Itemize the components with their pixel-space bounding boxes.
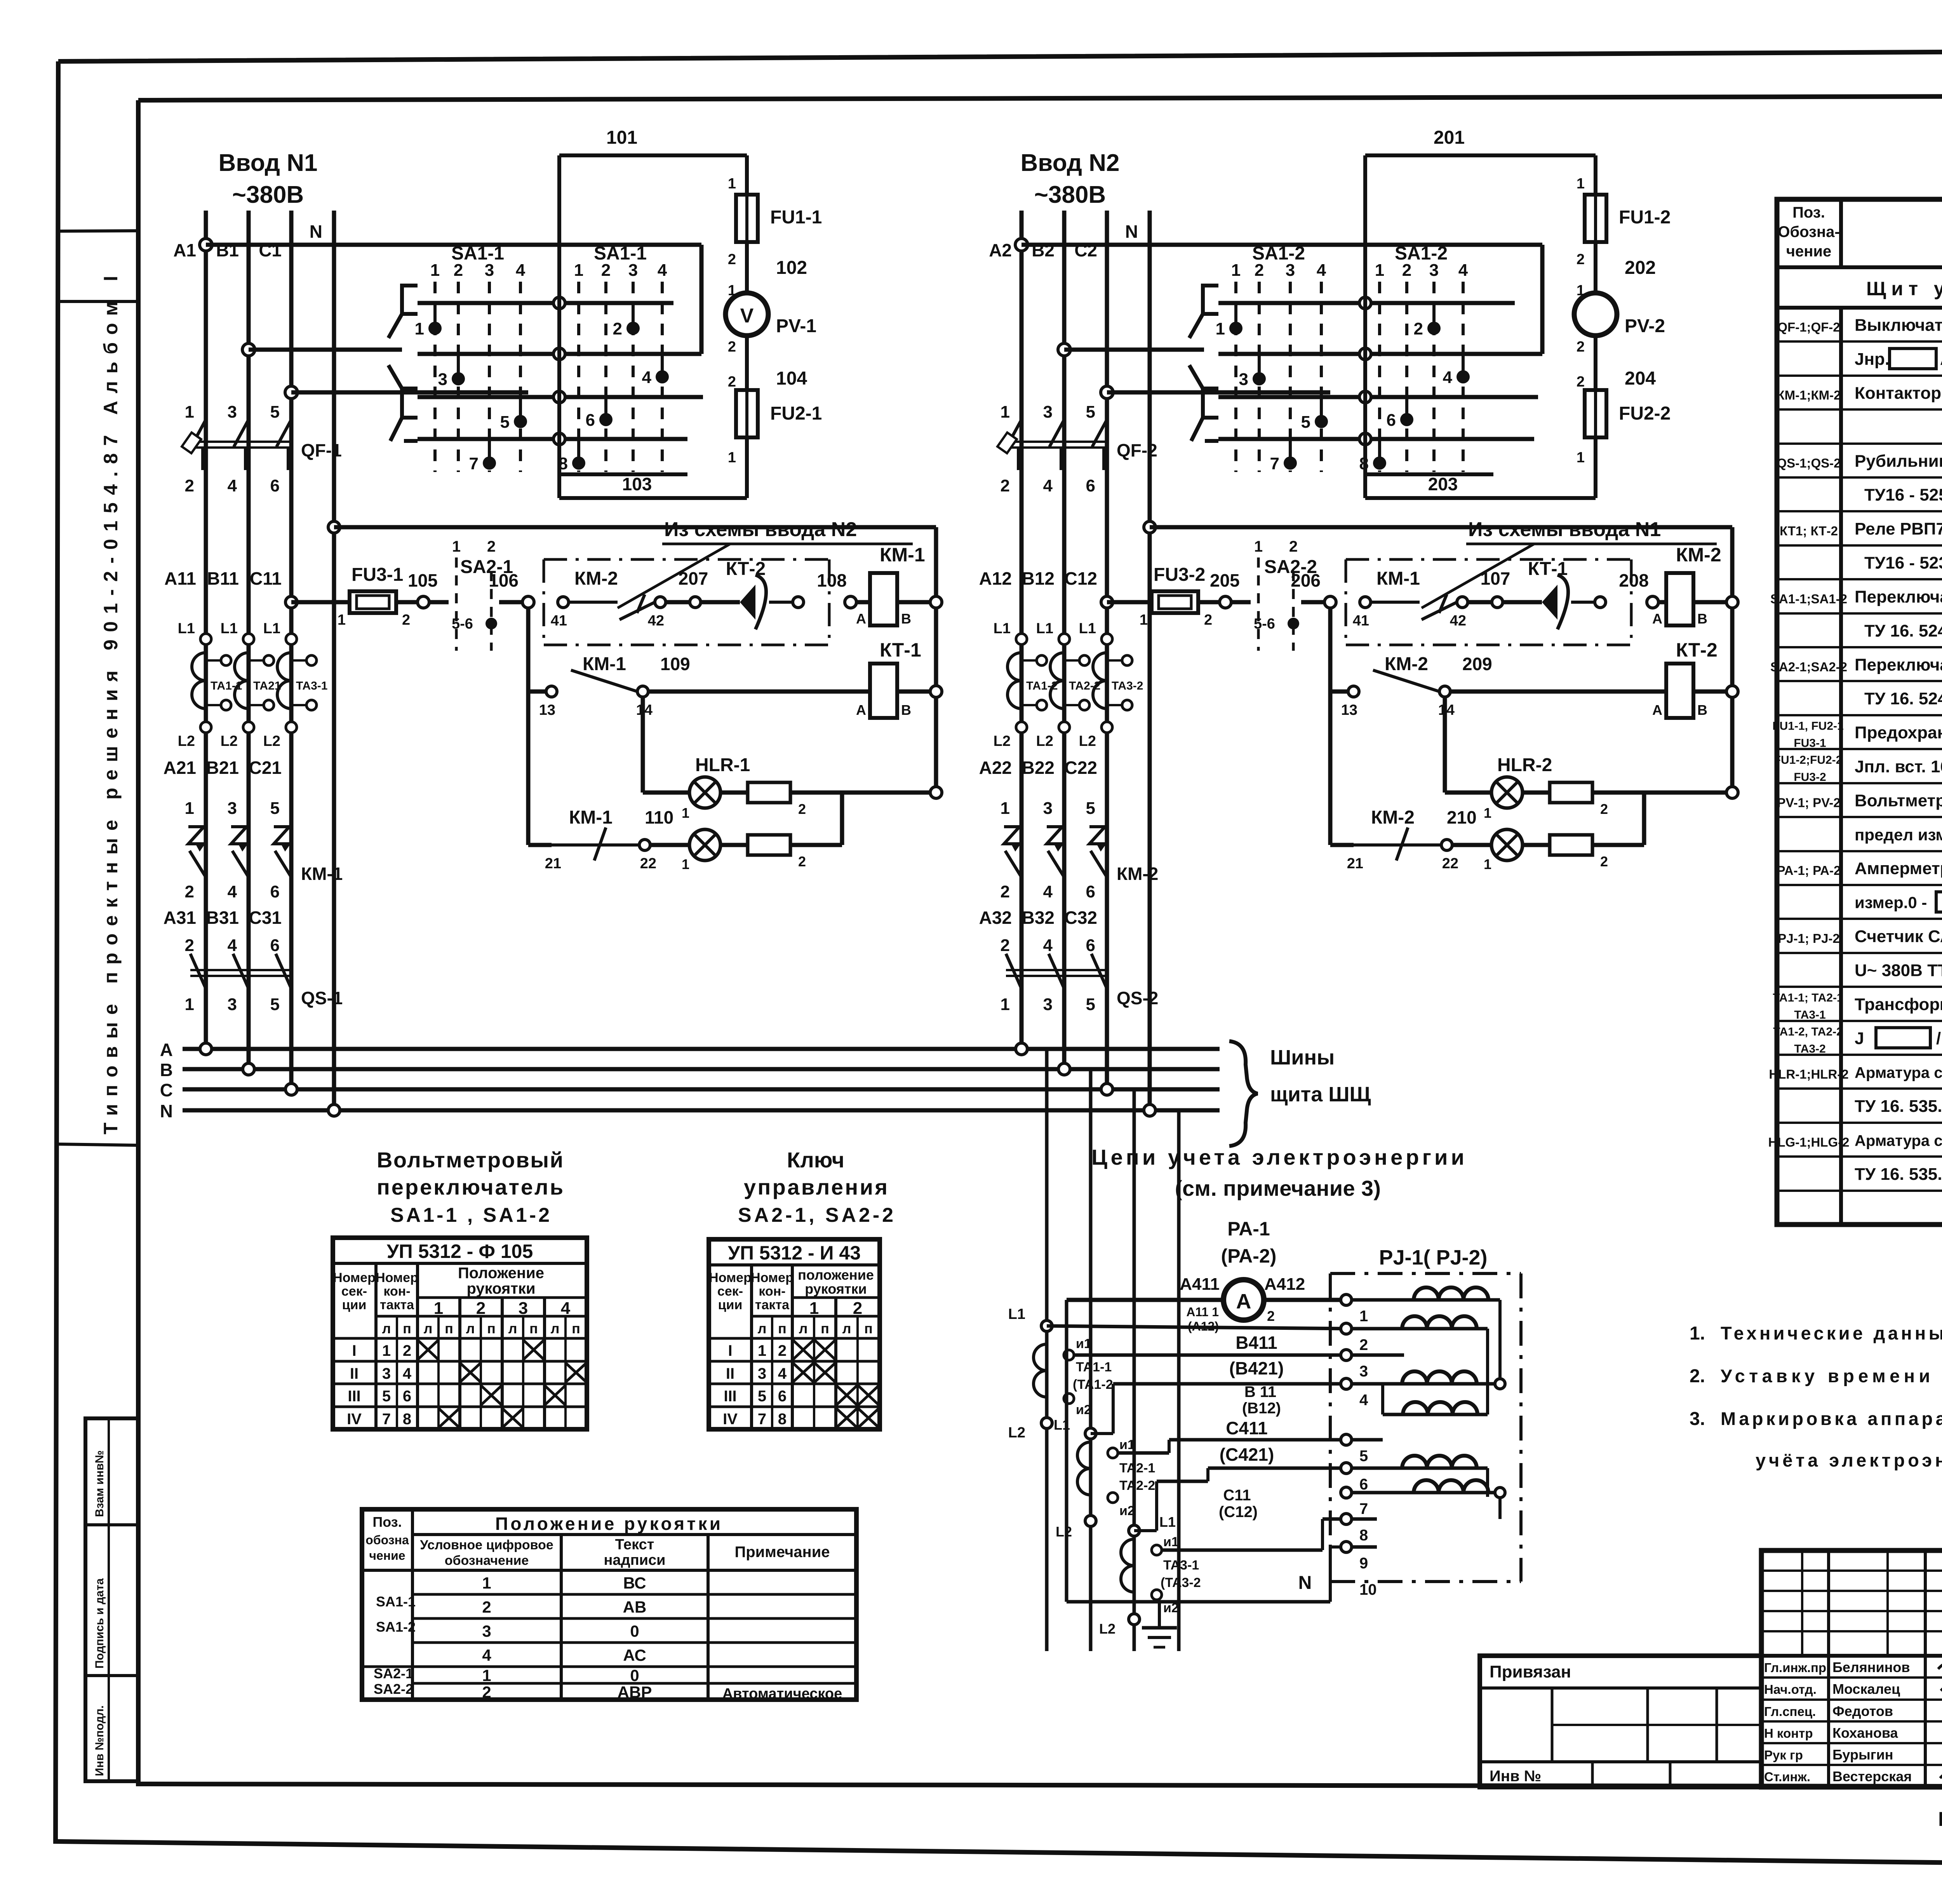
- element row РА измер: [1855, 892, 1942, 913]
- svg-text:QF-1: QF-1: [301, 440, 342, 460]
- wire row 8 from TA3 secondary: [1161, 1519, 1346, 1550]
- note 3 Маркировка аппаратов: [1690, 1408, 1942, 1470]
- svg-text:Бурыгин: Бурыгин: [1832, 1747, 1893, 1763]
- svg-text:FU2-1: FU2-1: [770, 403, 822, 424]
- element row PV-1;PV-2 Вольтметр: [1777, 791, 1942, 810]
- selector SA2-1 contact in control row: [429, 538, 513, 651]
- svg-text:ТА1-1; ТА2-1: ТА1-1; ТА2-1: [1773, 991, 1843, 1004]
- svg-text:А: А: [1652, 702, 1662, 718]
- svg-text:л: л: [758, 1320, 767, 1336]
- svg-text:ТА3-2: ТА3-2: [1794, 1042, 1825, 1055]
- SA1-1 contact 3: [438, 355, 465, 389]
- svg-text:2: 2: [1267, 1308, 1275, 1324]
- svg-text:Вольтметр Э365 , кл. 15 ;: Вольтметр Э365 , кл. 15 ;: [1855, 791, 1942, 810]
- svg-text:Нач.отд.: Нач.отд.: [1764, 1682, 1817, 1697]
- svg-text:SА2-1: SА2-1: [374, 1665, 413, 1681]
- element row SA2 ТУ16.524.074-75: [1864, 689, 1942, 709]
- panel box 101: [559, 127, 747, 498]
- node on C1: [285, 386, 298, 399]
- svg-text:FU1-2: FU1-2: [1619, 207, 1671, 228]
- wire phase C1 vertical: [289, 211, 294, 1089]
- svg-text:и2: и2: [1076, 1402, 1091, 1417]
- svg-text:~380В: ~380В: [1034, 181, 1106, 208]
- SA1-2 contact 1: [1216, 305, 1242, 338]
- svg-text:обозначение: обозначение: [445, 1553, 529, 1568]
- svg-text:2: 2: [1577, 374, 1585, 390]
- svg-text:104: 104: [776, 368, 807, 389]
- svg-text:4: 4: [403, 1365, 412, 1382]
- svg-text:С22: С22: [1065, 758, 1097, 778]
- svg-text:5: 5: [1359, 1448, 1368, 1465]
- svg-text:КТ1; КТ-2: КТ1; КТ-2: [1780, 524, 1838, 538]
- element row QS ТУ16-525.005-74: [1864, 485, 1942, 505]
- margin note Копировал: [1938, 1808, 1942, 1853]
- svg-text:л: л: [508, 1320, 517, 1336]
- svg-text:Счетчик СА4У - И672 М , кл.2: Счетчик СА4У - И672 М , кл.2: [1855, 927, 1942, 946]
- labels A22 B22 C22: [979, 758, 1097, 778]
- svg-text:С21: С21: [249, 758, 282, 778]
- svg-text:А: А: [160, 1040, 173, 1060]
- svg-text:6: 6: [1086, 476, 1095, 495]
- svg-text:п: п: [572, 1320, 580, 1336]
- svg-text:ции: ции: [342, 1298, 367, 1312]
- SA1-1 contact row B wire: [418, 348, 701, 360]
- svg-text:и2: и2: [1119, 1503, 1135, 1518]
- svg-text:(С12): (С12): [1219, 1503, 1258, 1521]
- svg-text:В: В: [901, 611, 911, 627]
- SA1-1 contact row D wire: [418, 433, 687, 445]
- circuit breaker QF-1: [182, 402, 342, 495]
- svg-text:N: N: [310, 221, 322, 242]
- wire node 102: [728, 242, 807, 299]
- svg-text:л: л: [424, 1320, 433, 1336]
- svg-text:Технические данные электрооб: Технические данные электрооборудования с…: [1721, 1323, 1942, 1343]
- svg-text:~380В: ~380В: [232, 181, 304, 208]
- svg-text:3.: 3.: [1690, 1409, 1705, 1429]
- svg-text:205: 205: [1210, 570, 1240, 591]
- svg-text:1.: 1.: [1690, 1323, 1705, 1344]
- element row FU1-1,FU2-1,FU3-1 Предохранитель: [1772, 720, 1942, 750]
- svg-text:А: А: [1236, 1290, 1251, 1313]
- left margin title strip: [57, 231, 138, 1145]
- contactor aux NC contact КМ-1 41-42: [1353, 568, 1468, 629]
- svg-text:ТА2-2: ТА2-2: [1119, 1478, 1155, 1493]
- svg-text:I: I: [728, 1342, 732, 1359]
- svg-text:КТ-1: КТ-1: [1528, 559, 1568, 579]
- svg-text:3: 3: [1043, 995, 1053, 1014]
- note 2 Уставку времени: [1690, 1366, 1942, 1387]
- svg-text:4: 4: [642, 368, 652, 387]
- labels A32 B32 C32: [979, 908, 1097, 928]
- svg-text:Номер: Номер: [751, 1270, 794, 1285]
- SA1-1 contact 1: [415, 305, 442, 338]
- svg-text:Положение рукоятки: Положение рукоятки: [495, 1514, 720, 1534]
- left margin stamp boxes: [85, 1418, 138, 1781]
- svg-text:В21: В21: [206, 758, 239, 778]
- element row QS-1;QS-2 Рубильник: [1777, 450, 1942, 470]
- svg-text:IV: IV: [347, 1411, 362, 1428]
- svg-text:HLR-1;HLR-2: HLR-1;HLR-2: [1769, 1067, 1848, 1082]
- svg-text:Вестерская: Вестерская: [1832, 1768, 1912, 1784]
- svg-text:7: 7: [469, 454, 479, 473]
- svg-text:1: 1: [1484, 856, 1491, 872]
- svg-text:105: 105: [408, 570, 438, 591]
- svg-text:SА1-1;SА1-2: SА1-1;SА1-2: [1770, 592, 1847, 606]
- svg-text:L2: L2: [1008, 1425, 1025, 1441]
- svg-text:1: 1: [1484, 805, 1491, 821]
- svg-text:Трансформатор тока ТК - 20: Трансформатор тока ТК - 20 - 0.5 У3 ,: [1855, 995, 1942, 1014]
- svg-text:III: III: [724, 1388, 736, 1405]
- svg-text:А12: А12: [979, 568, 1012, 589]
- circuit breaker QF-2: [997, 402, 1157, 495]
- svg-text:7: 7: [758, 1411, 766, 1428]
- svg-text:предел измерения 0-500В, ТУ 2: предел измерения 0-500В, ТУ 25.04. 3720 …: [1855, 826, 1942, 844]
- svg-text:(РА-2): (РА-2): [1221, 1245, 1277, 1267]
- svg-text:L1: L1: [994, 620, 1011, 637]
- svg-text:Арматура светосигнальная АЕ32: Арматура светосигнальная АЕ3232 1129 2, …: [1855, 1132, 1942, 1149]
- note 1 Технические данные: [1690, 1323, 1942, 1344]
- svg-text:6: 6: [270, 476, 280, 495]
- svg-text:АВР: АВР: [618, 1683, 652, 1701]
- svg-text:2: 2: [1402, 261, 1411, 280]
- svg-text:41: 41: [1353, 613, 1369, 629]
- svg-text:1: 1: [452, 538, 461, 555]
- svg-text:1: 1: [682, 805, 689, 821]
- svg-text:2: 2: [1577, 339, 1585, 355]
- node 208: [1619, 570, 1666, 608]
- ammeter PA-1 circle: [1067, 1275, 1346, 1333]
- wire phase A1 vertical: [204, 211, 208, 1049]
- svg-text:5: 5: [1086, 402, 1095, 422]
- svg-text:7: 7: [1270, 454, 1279, 473]
- svg-text:4: 4: [1043, 476, 1053, 495]
- svg-text:1: 1: [1231, 261, 1241, 280]
- svg-text:2: 2: [1001, 936, 1010, 955]
- node 206 wire: [1291, 570, 1336, 845]
- svg-text:А31: А31: [164, 908, 196, 928]
- contactor main contacts КМ-2: [1001, 799, 1159, 901]
- svg-text:обозна: обозна: [365, 1533, 409, 1547]
- SA1-2 contact row A wire: [1218, 297, 1515, 309]
- svg-text:1: 1: [1140, 612, 1148, 628]
- svg-text:1: 1: [482, 1574, 491, 1592]
- svg-text:2: 2: [798, 801, 806, 817]
- title block signature rows: [1761, 1659, 1942, 1784]
- svg-text:L1: L1: [263, 620, 280, 637]
- svg-text:FU3-2: FU3-2: [1154, 564, 1205, 585]
- svg-text:Копировал: Копировал: [1938, 1808, 1942, 1831]
- svg-text:Амперметр Э365 , кл. 1,5 ;: Амперметр Э365 , кл. 1,5 ; предел: [1855, 859, 1942, 878]
- svg-text:КМ-2: КМ-2: [1371, 807, 1415, 828]
- svg-text:п: п: [529, 1320, 538, 1336]
- svg-text:L1: L1: [1159, 1514, 1176, 1530]
- svg-text:2: 2: [728, 251, 736, 268]
- svg-text:Jнр.: Jнр.: [1855, 350, 1890, 369]
- svg-text:3: 3: [482, 1622, 491, 1640]
- svg-text:л: л: [799, 1320, 808, 1336]
- time relay contact КТ-2: [701, 559, 804, 629]
- svg-text:В: В: [1697, 611, 1707, 627]
- contactor aux NO contact КМ-1 13-14 row: [528, 654, 870, 718]
- svg-text:Белянинов: Белянинов: [1832, 1659, 1910, 1675]
- svg-text:2: 2: [487, 538, 496, 555]
- SA1-2 contact 4: [1443, 354, 1470, 387]
- meter current coils: [1352, 1287, 1505, 1547]
- svg-text:4: 4: [228, 882, 237, 901]
- svg-text:L2: L2: [178, 733, 195, 749]
- svg-text:5: 5: [270, 995, 280, 1014]
- control supply rail from N (vvod 1): [328, 521, 936, 791]
- svg-text:1: 1: [682, 856, 689, 872]
- note text Из схемы ввода N2: [618, 518, 913, 608]
- svg-text:FU3-2: FU3-2: [1794, 771, 1826, 784]
- svg-text:1: 1: [415, 319, 424, 338]
- svg-text:Переключатель УП5312 - Ф 105: Переключатель УП5312 - Ф 105 У3: [1855, 587, 1942, 606]
- svg-text:Москалец: Москалец: [1832, 1681, 1900, 1697]
- svg-text:5: 5: [382, 1388, 391, 1405]
- svg-text:U~ 380В ТТ: U~ 380В ТТ: [1855, 961, 1942, 980]
- svg-text:КМ-2: КМ-2: [1676, 544, 1721, 566]
- svg-text:и1: и1: [1163, 1535, 1179, 1549]
- svg-text:В: В: [1697, 702, 1707, 718]
- SA1-2 contact row B wire: [1218, 348, 1542, 360]
- node on B2: [1058, 343, 1070, 356]
- svg-text:чение: чение: [1786, 243, 1831, 260]
- wire A1 feeder to SA1-1 box: [206, 245, 701, 354]
- svg-text:РЈ-1( РЈ-2): РЈ-1( РЈ-2): [1379, 1246, 1487, 1269]
- svg-text:SА1-1 , SА1-2: SА1-1 , SА1-2: [390, 1204, 550, 1226]
- svg-text:3: 3: [1043, 402, 1053, 422]
- svg-text:С32: С32: [1065, 908, 1097, 928]
- SA1-2 dashed contact columns: [1236, 282, 1463, 472]
- svg-text:Шины: Шины: [1270, 1046, 1335, 1069]
- svg-text:L2: L2: [994, 733, 1011, 749]
- svg-text:А412: А412: [1264, 1275, 1305, 1294]
- wire row to node 2 with label: [1008, 1306, 1346, 1331]
- svg-text:QF-1;QF-2: QF-1;QF-2: [1777, 320, 1840, 334]
- svg-text:42: 42: [1450, 613, 1466, 629]
- svg-text:А32: А32: [979, 908, 1012, 928]
- SA1-2 wiper bracket lower: [1189, 365, 1218, 441]
- svg-text:2: 2: [185, 882, 194, 901]
- svg-text:4: 4: [1359, 1392, 1368, 1409]
- svg-text:/ 5А; ТУ16. 517. 442 - 80: / 5А; ТУ16. 517. 442 - 80: [1936, 1029, 1942, 1048]
- SA1-2 return wire 103/203: [1367, 472, 1493, 476]
- svg-text:1: 1: [1254, 538, 1263, 555]
- element list table grid: [1777, 199, 1942, 1225]
- svg-text:7: 7: [382, 1411, 391, 1428]
- SA1-2 contact 2: [1414, 305, 1441, 338]
- fuse FU3-2: [1101, 564, 1212, 628]
- svg-text:3: 3: [758, 1365, 766, 1382]
- wire B11 row from TA2: [1054, 1383, 1346, 1439]
- svg-text:SА1-2: SА1-2: [376, 1619, 416, 1635]
- element row КТ1;КТ-2 Реле: [1780, 519, 1942, 538]
- svg-text:FU1-1: FU1-1: [770, 207, 822, 228]
- element row РА-1;РА-2 Амперметр: [1777, 859, 1942, 878]
- SA1-1 contact row A wire: [418, 297, 673, 309]
- current transformer ТА1-1 (ТА1-2) in metering: [1008, 1336, 1113, 1441]
- svg-text:6: 6: [403, 1388, 411, 1405]
- svg-text:Из схемы ввода N2: Из схемы ввода N2: [664, 518, 857, 541]
- brace bus group: [1229, 1041, 1258, 1146]
- svg-text:(С421): (С421): [1220, 1444, 1274, 1465]
- svg-text:3: 3: [438, 370, 447, 389]
- svg-text:В31: В31: [206, 908, 239, 928]
- svg-text:С11: С11: [1223, 1487, 1251, 1504]
- svg-text:3: 3: [485, 261, 494, 280]
- svg-text:1: 1: [1001, 402, 1010, 422]
- svg-text:8: 8: [778, 1411, 787, 1428]
- svg-text:201: 201: [1434, 127, 1465, 148]
- svg-text:Jпл. вст. 16А, ТУ16. 522. 112: Jпл. вст. 16А, ТУ16. 522. 112 - 74: [1855, 757, 1942, 776]
- svg-text:ТУ16 - 523. 472 - 79: ТУ16 - 523. 472 - 79: [1864, 554, 1942, 573]
- element row РЈ-1;РЈ-2 Счетчик: [1778, 927, 1942, 946]
- SA1-2 contact 7: [1270, 440, 1297, 473]
- svg-text:КМ-1;КМ-2: КМ-1;КМ-2: [1777, 388, 1841, 402]
- svg-text:101: 101: [606, 127, 637, 148]
- svg-text:1: 1: [1001, 799, 1010, 818]
- element row HLR ТУ16.535.582-76: [1855, 1096, 1942, 1117]
- svg-text:3: 3: [1359, 1363, 1368, 1380]
- svg-text:5: 5: [1086, 799, 1095, 818]
- svg-text:л: л: [382, 1320, 391, 1336]
- wire neutral N vertical (vvod 1): [332, 211, 336, 1110]
- current transformers ТА1-1 ТА2-1 ТА3-1: [178, 620, 328, 749]
- svg-text:J: J: [1855, 1029, 1864, 1048]
- svg-text:Поз.: Поз.: [1792, 204, 1825, 221]
- svg-text:п: п: [864, 1320, 873, 1336]
- svg-text:42: 42: [648, 613, 664, 629]
- svg-text:L2: L2: [1036, 733, 1053, 749]
- svg-text:и1: и1: [1119, 1437, 1135, 1452]
- svg-text:Н контр: Н контр: [1764, 1726, 1813, 1740]
- element row КМ-1;КМ-2 Контактор: [1777, 383, 1942, 403]
- time relay coil КТ-1: [856, 639, 942, 718]
- svg-text:(ТА3-2: (ТА3-2: [1161, 1575, 1201, 1590]
- svg-text:С31: С31: [249, 908, 282, 928]
- svg-text:PV-1; PV-2: PV-1; PV-2: [1777, 795, 1840, 810]
- svg-text:Подпись и дата: Подпись и дата: [93, 1578, 106, 1669]
- svg-text:Ключ: Ключ: [787, 1148, 844, 1172]
- svg-text:сек-: сек-: [717, 1284, 743, 1299]
- label PA-1 (PA-2) ammeter designator: [1221, 1218, 1277, 1267]
- current transformers ТА1-2 ТА2-2 ТА3-2: [994, 620, 1143, 749]
- svg-text:КТ-2: КТ-2: [726, 559, 766, 579]
- svg-text:В32: В32: [1022, 908, 1055, 928]
- svg-text:V: V: [740, 305, 754, 327]
- svg-text:В: В: [160, 1060, 173, 1080]
- fuse FU2-1: [728, 390, 822, 498]
- svg-text:Инв №: Инв №: [1490, 1768, 1541, 1785]
- caption Ключ управления SA2-1 SA2-2: [738, 1148, 893, 1226]
- svg-text:2: 2: [1204, 612, 1212, 628]
- wire node 204: [1577, 335, 1656, 390]
- svg-text:2: 2: [1001, 882, 1010, 901]
- wire C411 row: [1118, 1418, 1346, 1465]
- element row ТА J /5А: [1773, 1025, 1942, 1055]
- svg-text:КМ-1: КМ-1: [880, 544, 925, 566]
- caption Вольтметровый переключатель SA1-1 SA1-2: [377, 1148, 563, 1226]
- svg-text:SА2-1;SА2-2: SА2-1;SА2-2: [1770, 660, 1847, 674]
- svg-text:2: 2: [454, 261, 463, 280]
- wire C1 feeder to SA1-1 lower bracket: [291, 390, 528, 395]
- svg-text:щита ШЩ: щита ШЩ: [1270, 1083, 1371, 1106]
- svg-text:УП 5312 - И 43: УП 5312 - И 43: [728, 1242, 861, 1264]
- svg-text:В: В: [901, 702, 911, 718]
- svg-text:КТ-2: КТ-2: [1676, 639, 1718, 661]
- SA1-1 contact row C wire: [418, 391, 703, 403]
- title block left extension Привязан: [1480, 1656, 1761, 1787]
- svg-text:Арматура светосигнальная АЕ3: Арматура светосигнальная АЕ3212 112 У2,U…: [1855, 1064, 1942, 1082]
- svg-text:203: 203: [1428, 474, 1458, 494]
- svg-text:А: А: [1652, 611, 1662, 627]
- svg-text:Вольтметровый: Вольтметровый: [377, 1148, 563, 1172]
- svg-text:АВ: АВ: [623, 1598, 647, 1616]
- disconnect switch QS-1: [185, 936, 343, 1014]
- svg-text:Гл.спец.: Гл.спец.: [1764, 1704, 1816, 1719]
- svg-text:1: 1: [574, 261, 583, 280]
- wire phase A2 vertical: [1020, 211, 1024, 1049]
- svg-text:положение: положение: [798, 1267, 874, 1283]
- SA1-1 contact 6: [586, 396, 613, 430]
- time relay contact КТ-1: [1503, 559, 1606, 629]
- svg-text:2: 2: [1255, 261, 1264, 280]
- svg-text:206: 206: [1291, 570, 1321, 591]
- svg-text:FU3-1: FU3-1: [352, 564, 403, 585]
- svg-text:1: 1: [338, 612, 346, 628]
- svg-text:В 11: В 11: [1244, 1383, 1276, 1401]
- node on B1: [242, 343, 255, 356]
- svg-text:л: л: [842, 1320, 851, 1336]
- svg-text:Примечание: Примечание: [734, 1543, 830, 1561]
- labels A31 B31 C31: [164, 908, 282, 928]
- svg-text:L2: L2: [221, 733, 238, 749]
- svg-text:Выключатель: Выключатель: [1855, 316, 1942, 335]
- svg-text:L2: L2: [1079, 733, 1096, 749]
- labels B411 B421: [1229, 1333, 1284, 1378]
- element row QF-1;QF-2 Выключатель: [1777, 315, 1942, 335]
- wire A2 feeder to SA1-2 box: [1021, 245, 1542, 354]
- svg-text:5: 5: [1301, 413, 1310, 432]
- svg-text:4: 4: [1043, 936, 1053, 955]
- svg-text:РЈ-1; РЈ-2: РЈ-1; РЈ-2: [1778, 931, 1840, 946]
- wire B1 feeder to SA1-1 bracket: [249, 348, 402, 352]
- svg-text:КМ-2: КМ-2: [1385, 654, 1428, 674]
- selector switch SA1-2 column group 2 label: [1375, 243, 1468, 280]
- svg-text:209: 209: [1462, 654, 1492, 674]
- svg-text:3: 3: [228, 995, 237, 1014]
- svg-text:Номер: Номер: [376, 1270, 418, 1285]
- svg-text:п: п: [403, 1320, 411, 1336]
- wire node 104: [728, 335, 807, 390]
- labels A21 B21 C21: [164, 758, 282, 778]
- svg-text:4: 4: [482, 1646, 491, 1664]
- fuse FU3-1: [285, 564, 410, 628]
- contactor aux NC contact КМ-2 21-22 and green lamp HLG-2: [1330, 793, 1644, 872]
- svg-text:2: 2: [1359, 1336, 1368, 1354]
- table Положение рукоятки text labels: [362, 1509, 856, 1702]
- svg-text:103: 103: [622, 474, 652, 494]
- wire B2 feeder to SA1-2 bracket: [1064, 348, 1204, 352]
- svg-text:N: N: [160, 1101, 173, 1121]
- svg-text:1: 1: [185, 995, 194, 1014]
- svg-text:Федотов: Федотов: [1832, 1703, 1893, 1719]
- fuse FU2-2: [1577, 390, 1671, 498]
- svg-text:1: 1: [758, 1342, 766, 1359]
- svg-text:Переключатель УП 5312 - И 43: Переключатель УП 5312 - И 43 У3 ;: [1855, 655, 1942, 674]
- disconnect switch QS-2: [1001, 936, 1159, 1014]
